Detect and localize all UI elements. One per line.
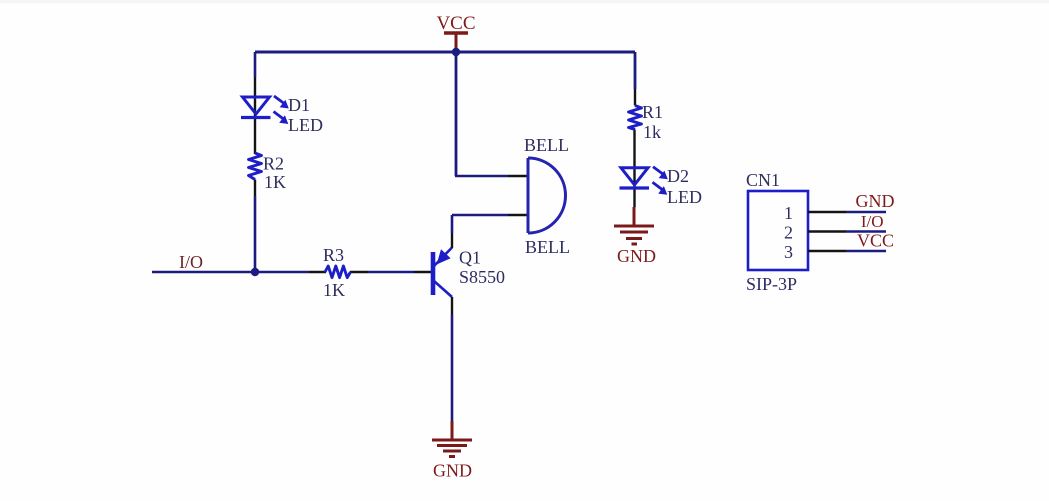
svg-text:Q1: Q1 [459,248,481,268]
wire: rail to bell top terminal [455,52,528,176]
svg-text:3: 3 [784,242,793,262]
resistor R1 [629,106,642,130]
wire: left branch vertical (rail to I/O node) [254,52,257,272]
svg-text:LED: LED [288,115,323,135]
buzzer BELL [528,158,566,233]
svg-text:BELL: BELL [525,237,570,257]
svg-text:1K: 1K [323,280,345,300]
wire: top VCC rail [255,51,635,54]
svg-text:1: 1 [784,203,793,223]
svg-text:GND: GND [617,246,656,266]
svg-text:2: 2 [784,223,793,243]
svg-text:SIP-3P: SIP-3P [746,274,797,294]
ground GND (center) [432,421,472,457]
svg-text:CN1: CN1 [746,170,780,190]
connector CN1 body [748,191,808,270]
ground GND (right) [614,207,654,244]
junction dot at I/O node [251,268,259,276]
svg-text:LED: LED [667,187,702,207]
svg-text:D2: D2 [667,166,689,186]
wire: Q1 collector to GND [451,297,453,421]
svg-text:R3: R3 [323,245,344,265]
svg-text:R1: R1 [642,102,663,122]
svg-text:D1: D1 [288,95,310,115]
svg-text:GND: GND [433,461,472,481]
svg-text:VCC: VCC [857,231,894,251]
resistor R2 [249,153,262,180]
LED D1 [241,96,289,124]
svg-text:I/O: I/O [861,212,884,231]
svg-text:BELL: BELL [524,135,569,155]
junction dot at VCC rail [452,48,460,56]
svg-text:GND: GND [856,191,895,211]
wire: bell bottom terminal to Q1 emitter [452,215,528,248]
power symbol VCC (bar and stem) [444,33,468,52]
svg-text:VCC: VCC [436,13,475,34]
transistor Q1 (PNP S8550) [433,248,452,298]
LED D2 [620,167,668,195]
resistor R3 [325,266,351,278]
svg-text:I/O: I/O [179,252,203,272]
svg-text:S8550: S8550 [459,267,505,287]
pin wire 1 (CN1 to GND net) [808,211,886,214]
pin wire 2 (CN1 to I/O net) [808,230,886,233]
wire: right branch vertical (rail to R1/D2/GND) [633,52,636,207]
svg-text:1k: 1k [643,122,661,142]
svg-text:1K: 1K [264,172,286,192]
pin wire 3 (CN1 to VCC net) [808,250,886,253]
wire: I/O horizontal [152,271,432,274]
svg-text:R2: R2 [263,154,284,174]
